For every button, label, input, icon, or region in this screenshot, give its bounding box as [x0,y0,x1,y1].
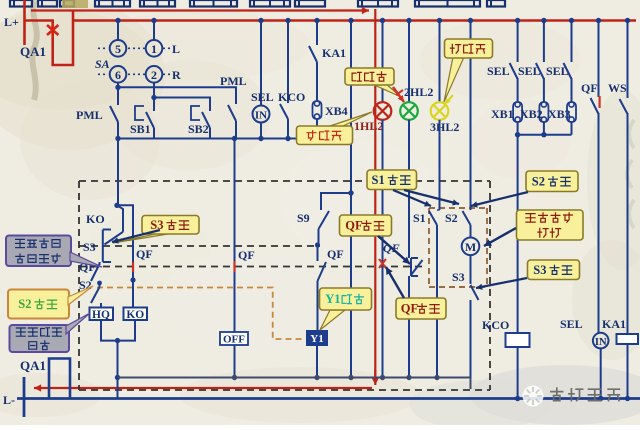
contact SEL1 [510,63,518,102]
wire S3 to QF [99,262,101,264]
coil OFF [220,332,248,346]
contact SEL2 [536,63,544,102]
callout green-lamp-off [345,68,401,97]
svg-text:Y1: Y1 [325,292,340,306]
label L- [3,393,15,407]
callout QF-closed [396,298,446,319]
svg-text:S9: S9 [297,211,310,225]
red mark QF crossing c [379,259,386,268]
SA contact 6 [110,66,127,83]
dashed divider line 3 (QF row) [79,266,427,268]
callout S1-closed [367,170,417,190]
arrow QFclosed [386,267,404,298]
callout S2-closed [8,286,93,319]
wire from bus to SA-5 [117,21,119,41]
label KO [86,212,105,226]
svg-text:L: L [172,42,180,56]
red lamp 1HL2 [374,102,392,120]
label SEL2 [518,64,541,78]
label QF s9chain [327,247,344,261]
contact S2 [463,211,471,238]
label KA1 [322,46,346,60]
label L [172,42,180,56]
label KCO coil [482,318,509,332]
svg-text:XB4: XB4 [325,104,348,118]
bus2 junction c [258,136,263,141]
bus3 corner down [470,378,472,390]
wire junction to PML right [118,87,236,104]
red return line bottom [34,384,372,391]
callout red-lamp-on [297,112,373,145]
label S3 left [83,240,96,254]
arrow S1closed a [393,190,431,207]
top bus junction 9 [437,18,442,23]
label KCO [278,90,305,104]
svg-text:PML: PML [220,74,247,88]
wire KCO contact [287,21,289,104]
wire S2-chain from bus [350,21,352,194]
red mark QF crossing a [132,262,134,272]
wire S2-chain down [350,193,352,378]
svg-text:QF: QF [401,302,419,316]
wire WS from bus [627,21,629,99]
wire OFF chain [234,139,236,333]
svg-text:QF: QF [345,219,363,233]
svg-text:1: 1 [151,42,157,56]
svg-text:L-: L- [3,393,15,407]
wire IN to L- [600,348,602,398]
svg-text:Y1: Y1 [310,333,323,345]
label XB3 [548,107,571,121]
callout S3-closed [113,216,199,244]
svg-text:6: 6 [115,68,121,82]
callout yellow-lamp-on [444,39,493,102]
wire QF right from bus [598,21,600,98]
svg-text:R: R [172,68,181,82]
label QF mid [383,241,400,255]
junction SA2 [151,95,156,100]
junction bus3 left [115,375,120,380]
svg-text:2HL2: 2HL2 [404,85,433,99]
top bus junction 2 [151,18,156,23]
wire 2HL2 from bus [408,21,410,103]
wire S9 branch [321,193,351,210]
watermark logo 电力实事 [523,386,620,407]
svg-text:KCO: KCO [482,318,509,332]
svg-text:SB1: SB1 [130,122,151,136]
svg-text:KO: KO [86,212,105,226]
top bus junction 7 [380,18,385,23]
link XB3 [567,102,576,135]
callout Y1-energized [320,288,372,330]
arrow S3open [476,278,527,290]
red trip wire vertical [374,9,376,381]
contact QF right [591,98,599,333]
wire to QF contact [317,245,319,261]
bus3 junction f [434,375,439,380]
junction S9-QF [315,242,320,247]
wire to PML left [117,87,119,105]
horizontal bus 2 [118,138,351,140]
svg-text:L+: L+ [4,15,19,29]
svg-text:KA1: KA1 [602,317,626,331]
svg-text:IN: IN [595,337,607,348]
wire SA2 to junction [153,83,155,98]
motor M [462,238,480,256]
coil KA1 [617,334,639,399]
contact S3 [471,285,479,378]
svg-text:1HL2: 1HL2 [354,119,383,133]
contact S1 [429,210,440,378]
bus3 junction a [232,375,237,380]
wire IN to bus2 [260,123,262,139]
L- bus [17,397,640,400]
bus2 junction d [285,136,290,141]
wire 1HL2 from bus [382,21,384,103]
label SB2 [188,122,209,136]
label S9 [297,211,310,225]
svg-text:KO: KO [126,309,144,321]
red control bus L+ (top) [73,19,636,21]
bus2 junction b [232,136,237,141]
wire SEL3 from bus [571,21,573,63]
XB join bus [518,134,572,136]
wire SEL2 from bus [543,21,545,63]
label SEL [251,90,274,104]
svg-text:WS: WS [608,81,627,95]
junction L- KCO [515,396,520,401]
svg-text:M: M [465,240,476,254]
title fragment (cropped heading) [10,0,505,8]
contact KCO [280,104,288,139]
wire SA6 to junction [117,83,119,88]
svg-text:XB2: XB2 [520,107,543,121]
SA linkage dots row2 [98,73,171,75]
label QF ko-chain [136,247,153,261]
svg-text:QF: QF [136,247,153,261]
svg-text:OFF: OFF [223,334,245,346]
label KA1 coil [602,317,626,331]
svg-text:SEL: SEL [546,64,569,78]
junction KO wire [130,277,135,282]
svg-text:XB3: XB3 [548,107,571,121]
label S1 [413,211,426,225]
callout aux-contact grey [6,236,102,268]
svg-text:SEL: SEL [518,64,541,78]
svg-text:SB2: SB2 [188,122,209,136]
contact QF (2HL2 chain) [409,258,423,378]
wire below 3HL2 [439,120,441,210]
top bus junction 4 [285,18,290,23]
red trip wire bottom arrow [372,370,379,385]
bus3 junction d [380,375,385,380]
svg-text:5: 5 [115,42,121,56]
L+ terminal lead [23,0,26,45]
wire Y1 to bus3 [316,345,318,378]
SA contact 5 [110,40,127,57]
svg-text:QA1: QA1 [20,358,46,373]
wire junction to SB2 [154,98,210,105]
red feeder line (top, to trip path) [31,7,369,14]
contact PML right [228,105,236,139]
pushbutton SB2 [191,104,210,139]
wire from bus to SA-1 [153,21,155,41]
svg-text:S3: S3 [150,218,163,232]
top bus junction 8 [406,18,411,23]
coil KO [124,308,148,322]
svg-text:QA1: QA1 [20,44,46,59]
yellow arrow at lamp [445,95,453,104]
callout QF-open [340,215,392,236]
top bus junction 13 [569,18,574,23]
top bus junction 1 [115,18,120,23]
svg-text:S3: S3 [83,240,96,254]
SA linkage dots row1 [98,47,171,49]
svg-text:S3: S3 [533,263,546,277]
coil KCO [506,333,530,399]
label QF right [581,81,598,95]
svg-text:IN: IN [255,110,267,122]
svg-text:S2: S2 [445,211,458,225]
label QA1 top [20,44,46,59]
wire SEL1 from bus [517,21,519,63]
wire HQ KO join [101,320,135,341]
top bus junction 12 [541,18,546,23]
label WS [608,81,627,95]
svg-text:3HL2: 3HL2 [430,120,459,134]
pushbutton SB1 [135,106,154,139]
arrow S2open [471,192,528,208]
red mark QF crossing b [233,261,235,272]
label 1HL2 [354,119,383,133]
green lamp 2HL2 [400,102,418,120]
svg-text:PML: PML [76,108,103,122]
contact WS [620,99,628,334]
wire M to S3 [470,255,472,284]
dashed divider line 2 [79,245,320,247]
arrow motorstop [484,228,516,246]
wire below 1HL2 [382,120,384,378]
SA contact 2 [146,66,163,83]
svg-text:S1: S1 [372,173,385,187]
label QF left [79,260,96,274]
label PML left [76,108,103,122]
junction SA6 [115,85,120,90]
wire S2 to HQ [100,303,102,308]
contact PML left [110,106,118,139]
wire left chain from bus2 [117,139,119,206]
top bus junction 15 [625,18,630,23]
wire SB1 [153,98,155,112]
aux switch S3 bracket [103,230,111,263]
contact KO (blade) [105,205,124,244]
label S2 left [79,278,92,292]
contact S2 left [91,287,100,303]
junction L- IN [598,396,603,401]
label XB1 [491,107,514,121]
junction QF-S2 [97,281,102,287]
junction HQ-KO [115,338,120,343]
link XB4 [313,101,322,139]
XB join dot b [541,132,546,137]
bus2 junction a [115,136,120,141]
arrow QFopen [378,236,410,264]
wire 3HL2 from bus [439,21,441,103]
callout coil-deenergized grey [10,313,91,352]
svg-text:S2: S2 [18,297,31,311]
label QF off-chain [238,248,255,262]
contact QF (S9 chain) [318,262,327,331]
svg-text:SEL: SEL [487,64,510,78]
SA contact 1 [146,40,163,57]
arrow to green lamp [393,87,404,102]
yellow lamp 3HL2 [431,102,449,120]
svg-text:KA1: KA1 [322,46,346,60]
label SB1 [130,122,151,136]
label 2HL2 [404,85,433,99]
svg-text:QF: QF [581,81,598,95]
label PML right [220,74,247,88]
svg-text:S2: S2 [532,174,545,188]
junction left chain [114,203,119,208]
svg-text:HQ: HQ [92,309,110,321]
contact KA1 [309,46,317,101]
outer dashed box (mechanism) [79,181,490,390]
top bus junction 3 [258,18,263,23]
red mark QF right [598,96,600,108]
svg-text:QF: QF [327,247,344,261]
label XB2 [520,107,543,121]
wire KCO chain [517,135,519,333]
arrow S1closed b [404,190,459,206]
svg-text:KCO: KCO [278,90,305,104]
wire join to bus3 [117,341,119,399]
top bus junction 14 [596,18,601,23]
label L+ [4,15,19,29]
disconnect QA1 bottom [49,359,70,399]
arrow S3closed [112,230,160,244]
orange dashed trip path [97,288,303,340]
junction S9 branch [348,190,353,195]
top bus junction 6 [348,18,353,23]
wire KA1 contact from bus [316,21,318,46]
contact S9 [319,211,330,245]
bus3 junction c [348,375,353,380]
indicator IN (SEL lower) [593,333,609,349]
top bus junction 10 [468,18,473,23]
label SA [95,57,110,71]
label R [172,68,181,82]
XB join dot a [515,132,520,137]
label S2 mid [445,211,458,225]
contact SEL3 [564,63,572,102]
label SEL3 [546,64,569,78]
callout S2-open [526,171,578,192]
contact QF left [91,264,100,281]
bus3 junction e [406,375,411,380]
svg-text:SEL: SEL [560,317,583,331]
wire M chain from bus [470,21,472,211]
horizontal bus 3 [118,377,471,379]
top bus junction 5 [314,18,319,23]
fault star on QA1 [47,23,58,37]
link XB1 [513,102,522,135]
position indicator IN (SEL) [253,106,270,123]
label 3HL2 [430,120,459,134]
svg-text:S1: S1 [413,211,426,225]
wire SEL-IN from bus [260,21,262,106]
label XB4 [325,104,348,118]
top bus junction 11 [515,18,520,23]
wire KO branch [117,205,133,307]
svg-text:2: 2 [151,68,157,82]
coil HQ [90,308,114,322]
L- terminal bar [23,377,26,417]
svg-text:SA: SA [95,57,110,71]
junction L- KA1 [625,396,630,401]
callout motor-stop [517,210,584,240]
wire below 2HL2 [408,120,410,258]
svg-text:QF: QF [238,248,255,262]
callout S3-open [528,260,580,280]
brown dashed box (S1 S2 M) [429,208,487,287]
solenoid Y1 [307,331,327,345]
label SEL1 [487,64,510,78]
svg-text:XB1: XB1 [491,107,514,121]
bus3 junction b [314,375,319,380]
link XB2 [539,102,548,135]
wire OFF to bus3 [234,345,236,378]
label QA1 bottom [20,358,46,373]
label S3 mid [452,270,465,284]
svg-text:S3: S3 [452,270,465,284]
label SEL lower [560,317,583,331]
svg-text:SEL: SEL [251,90,274,104]
disconnect switch QA1 (open, red path) [25,11,74,66]
